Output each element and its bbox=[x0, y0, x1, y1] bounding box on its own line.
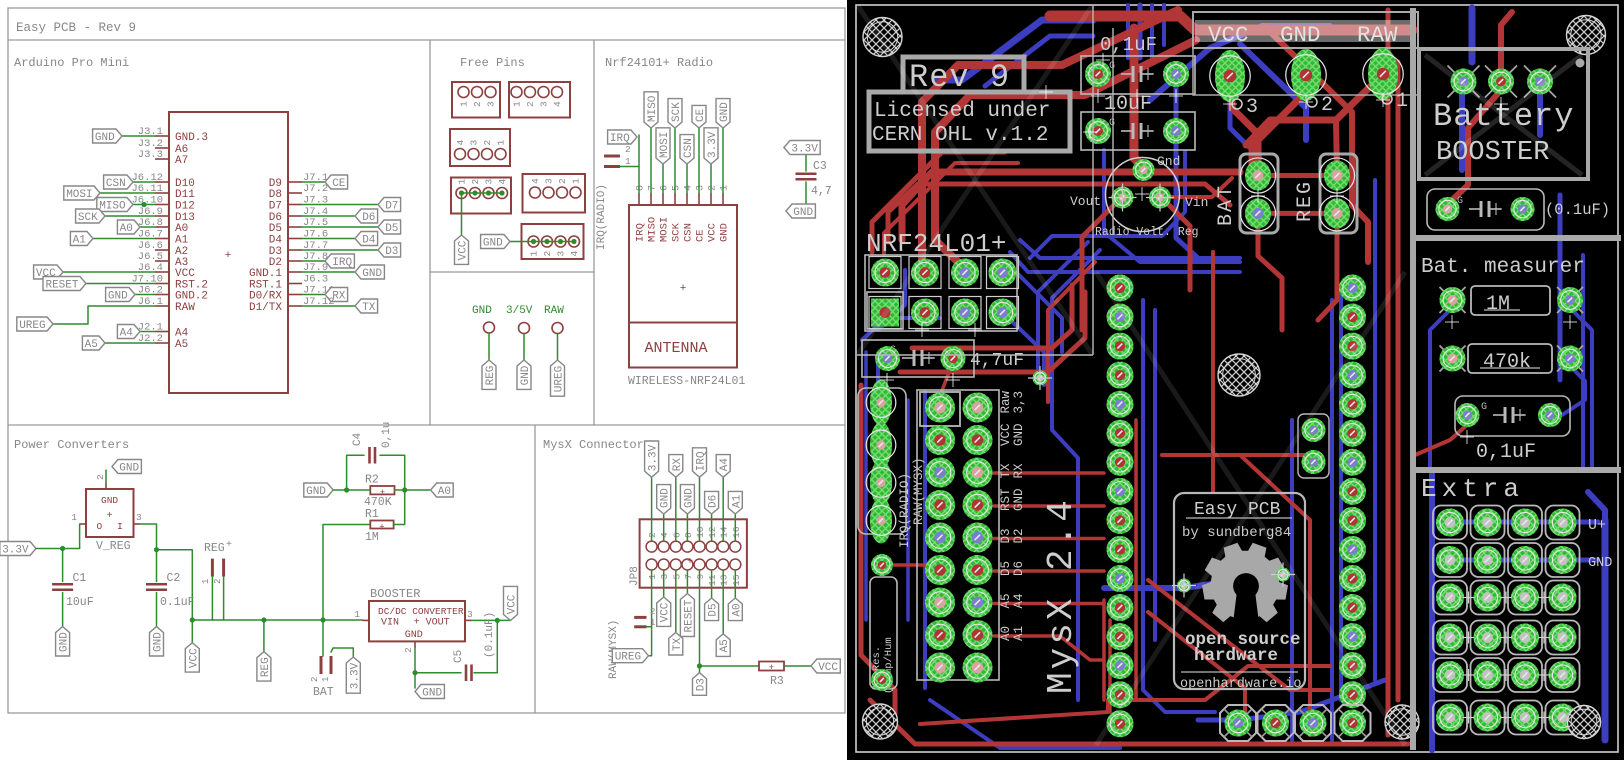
wire blue extra left bbox=[1429, 470, 1435, 750]
wire VCC-3.3V bbox=[710, 164, 712, 193]
svg-text:3.3V: 3.3V bbox=[2, 545, 29, 557]
svg-text:1M: 1M bbox=[365, 531, 379, 544]
pad J6.5 bbox=[1107, 391, 1134, 418]
pad J7.1 bbox=[1339, 275, 1366, 302]
pad logo.1 bbox=[1177, 579, 1191, 593]
wire blue battery top bbox=[1469, 8, 1476, 62]
pin J7.7 D3 bbox=[269, 240, 328, 258]
svg-text:GND: GND bbox=[108, 291, 128, 303]
svg-text:3,3: 3,3 bbox=[1012, 391, 1026, 414]
wire red diag logo 2 bbox=[1148, 612, 1245, 720]
silk extra pad 4.4 bbox=[1546, 621, 1580, 655]
pin J6.1 RAW bbox=[138, 296, 195, 314]
svg-text:BAT: BAT bbox=[1215, 184, 1238, 226]
wire red mid vertical bbox=[1134, 420, 1138, 700]
svg-text:C1: C1 bbox=[73, 572, 87, 585]
jumper JP7 IRQ(RADIO) bbox=[604, 144, 631, 167]
svg-text:4: 4 bbox=[530, 178, 541, 184]
svg-text:MysX 2.4: MysX 2.4 bbox=[1041, 497, 1082, 694]
wire REG pin1 bbox=[211, 577, 213, 621]
pad NRF.8 bbox=[989, 259, 1017, 287]
wire red left of col bbox=[1102, 600, 1106, 700]
wire red horizontal 1 bbox=[902, 172, 1240, 240]
mounting hole bottom-right overlay bbox=[1568, 706, 1601, 739]
svg-text:GND: GND bbox=[483, 238, 503, 250]
svg-text:16: 16 bbox=[731, 526, 742, 538]
svg-text:VCC: VCC bbox=[660, 602, 672, 622]
silk extra pad 1.5 bbox=[1433, 658, 1467, 692]
silk aux pads bbox=[1298, 414, 1329, 478]
wire blue left edge vertical bbox=[876, 358, 880, 520]
svg-text:1: 1 bbox=[1396, 90, 1408, 113]
silk bottom octagon 4 bbox=[1335, 705, 1371, 741]
wire blue cap to reg bbox=[1176, 145, 1198, 258]
silk box power header bbox=[1193, 12, 1418, 95]
svg-text:4,7: 4,7 bbox=[811, 185, 832, 198]
svg-text:2: 2 bbox=[310, 677, 320, 682]
wire red vcc down bbox=[1232, 76, 1258, 172]
pad C9.1 bbox=[1436, 197, 1460, 221]
svg-text:REG: REG bbox=[1294, 180, 1317, 222]
pad R1M.1 bbox=[1440, 287, 1466, 313]
pad C6.1 bbox=[1085, 118, 1111, 144]
pin J6.8 A0 bbox=[138, 217, 188, 235]
svg-text:A0: A0 bbox=[438, 486, 451, 498]
pad EXTRA.4.1 bbox=[1549, 509, 1577, 537]
wire TX bbox=[675, 570, 677, 632]
wire R1 to junction bbox=[394, 490, 405, 525]
pad bottom.1 bbox=[1225, 710, 1252, 737]
wire blue extra right bbox=[1602, 520, 1609, 740]
svg-text:IRQ: IRQ bbox=[696, 451, 708, 471]
svg-text:2: 2 bbox=[213, 579, 223, 584]
pad aux.1 bbox=[1302, 418, 1326, 442]
wire blue right of reg bbox=[1030, 152, 1185, 258]
pad BAT.2 bbox=[1240, 196, 1275, 231]
pad J7.8 bbox=[1339, 478, 1366, 505]
mounting hole bottom-right bbox=[1568, 706, 1601, 739]
svg-text:Easy PCB - Rev 9: Easy PCB - Rev 9 bbox=[16, 21, 136, 35]
svg-text:GND: GND bbox=[520, 365, 532, 385]
svg-text:UREG: UREG bbox=[19, 320, 45, 332]
wire red top band bbox=[1050, 16, 1412, 30]
label mysx row D3 D2 bbox=[999, 528, 1026, 543]
svg-text:GND: GND bbox=[59, 632, 71, 652]
wire net GND bbox=[122, 135, 155, 137]
pad EXTRA.4.4 bbox=[1549, 624, 1577, 652]
wire net SCK bbox=[105, 215, 155, 217]
wire red reg down bbox=[1318, 213, 1337, 320]
svg-text:3: 3 bbox=[484, 179, 495, 185]
svg-text:D6: D6 bbox=[362, 212, 375, 224]
wire MOSI bbox=[662, 164, 664, 193]
wire to C5 right bbox=[474, 620, 497, 672]
pin J7.8 D2 bbox=[269, 251, 328, 269]
svg-text:G: G bbox=[1481, 402, 1487, 413]
silk extra pad 4.1 bbox=[1546, 506, 1580, 540]
wire net GND bbox=[135, 294, 155, 296]
svg-text:3: 3 bbox=[486, 101, 497, 107]
pad J7.10 bbox=[1339, 536, 1366, 563]
pad EXTRA.3.3 bbox=[1511, 584, 1539, 612]
label A1 bbox=[70, 232, 93, 247]
svg-text:C4: C4 bbox=[352, 432, 364, 446]
pad EXTRA.4.3 bbox=[1549, 584, 1577, 612]
wire blue battery 2 bbox=[1537, 90, 1543, 135]
svg-text:D5: D5 bbox=[708, 603, 720, 616]
svg-text:VCC: VCC bbox=[507, 594, 519, 614]
svg-text:3.3V: 3.3V bbox=[791, 144, 818, 156]
svg-text:Radio Volt. Reg: Radio Volt. Reg bbox=[1095, 226, 1199, 239]
label RESET bbox=[680, 594, 695, 637]
pin J7.9 GND.1 bbox=[249, 262, 328, 280]
wire A5 bbox=[722, 570, 724, 634]
svg-text:GND: GND bbox=[405, 630, 423, 641]
radio pin 4 bbox=[684, 185, 695, 205]
label D4 bbox=[355, 232, 378, 247]
label mysx row VCC GND bbox=[999, 423, 1026, 446]
wire REG pin2 bbox=[223, 577, 225, 621]
svg-text:A5: A5 bbox=[175, 339, 188, 351]
svg-text:A0: A0 bbox=[120, 223, 133, 235]
wire red bat-reg link 2 bbox=[1258, 211, 1337, 216]
label REG bbox=[482, 360, 497, 389]
wire red gnd diagonal bbox=[1252, 92, 1306, 174]
svg-text:+: + bbox=[107, 511, 113, 522]
svg-text:O: O bbox=[96, 521, 102, 532]
svg-text:GND.3: GND.3 bbox=[175, 132, 208, 144]
svg-text:hardware: hardware bbox=[1194, 646, 1278, 666]
pad J6.15 bbox=[1107, 681, 1134, 708]
label A5 bbox=[716, 634, 731, 657]
svg-text:TX: TX bbox=[672, 637, 684, 651]
wire red diag logo 1 bbox=[1148, 580, 1330, 690]
svg-text:VIN: VIN bbox=[381, 618, 399, 629]
pad J7.6 bbox=[1339, 420, 1366, 447]
wire blue battery 1 bbox=[1459, 90, 1465, 170]
label D3 bbox=[693, 673, 708, 696]
label GND bbox=[786, 204, 815, 219]
pad EXTRA.4.2 bbox=[1549, 546, 1577, 574]
label VCC bbox=[811, 659, 840, 674]
svg-text:2: 2 bbox=[1321, 94, 1333, 117]
pin J7.5 D5 bbox=[269, 217, 328, 235]
svg-text:3: 3 bbox=[136, 512, 142, 523]
silk nrf pad squares bbox=[869, 257, 1019, 329]
logo open source hardware gear bbox=[1202, 543, 1288, 631]
pad RAWMYSX.4 bbox=[866, 498, 896, 544]
label UREG bbox=[612, 649, 648, 664]
wire net D5 bbox=[302, 226, 378, 228]
pad J7.3 bbox=[1339, 333, 1366, 360]
silk arduino outline left bbox=[1092, 5, 1094, 355]
wire blue right mid 2 bbox=[1330, 300, 1334, 740]
pad via raw bbox=[1033, 371, 1048, 386]
svg-text:WIRELESS-NRF24L01: WIRELESS-NRF24L01 bbox=[628, 375, 745, 388]
wire net D4 bbox=[302, 238, 355, 240]
svg-text:7: 7 bbox=[683, 574, 694, 580]
silk extra pad 2.4 bbox=[1471, 621, 1505, 655]
svg-text:U+: U+ bbox=[1588, 517, 1606, 534]
silk extra pad 2.3 bbox=[1471, 581, 1505, 615]
svg-text:D5: D5 bbox=[999, 561, 1013, 576]
wire 3.3V bbox=[651, 477, 653, 541]
radio pin 7 bbox=[648, 185, 659, 205]
label GND bbox=[680, 485, 695, 514]
svg-text:1M: 1M bbox=[1486, 293, 1510, 316]
label SCK bbox=[668, 99, 683, 128]
svg-text:2: 2 bbox=[525, 101, 536, 107]
wire GND to R2 bbox=[333, 489, 370, 491]
svg-text:GND: GND bbox=[472, 305, 492, 317]
capacitor C5 bbox=[453, 612, 496, 681]
pin J2.2 A5 bbox=[138, 333, 188, 351]
svg-text:A5: A5 bbox=[999, 593, 1013, 608]
pad BATT.1 bbox=[1451, 69, 1477, 95]
pad aux.2 bbox=[1302, 450, 1326, 474]
wire blue extra row2 bbox=[1438, 558, 1598, 563]
silk extra pad 3.4 bbox=[1508, 621, 1542, 655]
svg-text:8: 8 bbox=[683, 532, 694, 538]
wire red vin to bat bbox=[1171, 178, 1232, 197]
svg-text:Extra: Extra bbox=[1421, 474, 1524, 504]
svg-text:RAW: RAW bbox=[175, 302, 195, 314]
svg-text:+ VOUT: + VOUT bbox=[414, 618, 450, 629]
label CE bbox=[325, 175, 348, 190]
mounting hole center bbox=[1218, 354, 1260, 396]
label GND bbox=[304, 483, 333, 498]
pin J7.3 D7 bbox=[269, 195, 328, 213]
pad MYSX.L1 bbox=[925, 393, 955, 423]
pad reg Vin bbox=[1149, 187, 1171, 209]
svg-text:MysX Connector: MysX Connector bbox=[543, 438, 644, 452]
pad EXTRA.1.4 bbox=[1436, 624, 1464, 652]
svg-text:VCC: VCC bbox=[999, 423, 1013, 446]
wire red bat down bbox=[1258, 213, 1282, 330]
svg-text:RAW(MYSX): RAW(MYSX) bbox=[912, 457, 926, 525]
svg-text:REG: REG bbox=[260, 657, 272, 677]
svg-text:SCK: SCK bbox=[671, 102, 683, 122]
svg-text:470k: 470k bbox=[1483, 351, 1531, 374]
wire blue right mid 1 bbox=[1290, 420, 1294, 740]
pin J6.12 D10 bbox=[131, 172, 194, 190]
silk mysx header bbox=[917, 390, 999, 680]
pad MYSX.R3 bbox=[963, 458, 993, 488]
svg-text:D2: D2 bbox=[1012, 528, 1026, 543]
pad J6.3 bbox=[1107, 333, 1134, 360]
wire A0 bbox=[734, 570, 736, 598]
pad EXTRA.3.5 bbox=[1511, 661, 1539, 689]
pad BATT.2 bbox=[1488, 69, 1514, 95]
pad MYSX.R1 bbox=[963, 393, 993, 423]
small silk dot bbox=[1576, 59, 1585, 68]
svg-text:UREG: UREG bbox=[554, 366, 566, 392]
pad J6.16 bbox=[1107, 710, 1134, 737]
wire VCC bbox=[663, 570, 665, 597]
svg-text:1: 1 bbox=[529, 251, 540, 257]
wire IRQ bbox=[699, 477, 701, 541]
wire net IRQ bbox=[302, 260, 325, 262]
label SCK bbox=[76, 209, 105, 224]
svg-text:GND: GND bbox=[101, 495, 118, 506]
wire jumper pin1 bbox=[620, 166, 639, 168]
svg-text:D8: D8 bbox=[269, 189, 282, 201]
wire blue 1M right bbox=[1570, 308, 1592, 468]
svg-text:GND: GND bbox=[719, 223, 731, 242]
pad MYSX.R2 bbox=[963, 425, 993, 455]
svg-text:MISO: MISO bbox=[99, 201, 126, 213]
wire A4 bbox=[722, 477, 724, 541]
connector JP1 3-pin header bbox=[452, 82, 500, 118]
svg-text:D5: D5 bbox=[385, 223, 398, 235]
label IRQ bbox=[693, 448, 708, 477]
pin numbers 3 2 1 bbox=[1232, 90, 1408, 119]
svg-text:4,7uF: 4,7uF bbox=[970, 351, 1024, 371]
pad NRF.2 bbox=[871, 259, 899, 287]
wire D5 bbox=[711, 570, 713, 598]
wire to GND bbox=[523, 334, 525, 361]
svg-text:1: 1 bbox=[496, 140, 507, 146]
wire blue left edge vertical 2 bbox=[864, 352, 868, 620]
pin REG bbox=[484, 322, 495, 333]
IC V_REG voltage regulator bbox=[71, 474, 142, 537]
svg-text:5: 5 bbox=[672, 185, 683, 191]
wire to GND bbox=[414, 673, 416, 688]
label VCC bbox=[185, 643, 200, 672]
svg-text:3.3V: 3.3V bbox=[648, 444, 660, 471]
label D6 bbox=[355, 209, 378, 224]
label IRQ bbox=[608, 130, 637, 145]
svg-text:D0/RX: D0/RX bbox=[249, 290, 282, 302]
pad J7.4 bbox=[1339, 362, 1366, 389]
wire blue center vertical 3 bbox=[1162, 5, 1166, 45]
wire red right vertical 2 bbox=[1396, 62, 1401, 700]
svg-text:3/5V: 3/5V bbox=[506, 305, 533, 317]
wire blue right vertical 3 bbox=[1581, 255, 1585, 468]
connector JP8 MysX body bbox=[640, 519, 747, 587]
svg-text:1: 1 bbox=[625, 156, 631, 167]
pad D3res.1 bbox=[871, 554, 893, 576]
pad MYSX.L2 bbox=[925, 425, 955, 455]
wire pin9 to R3 bbox=[700, 570, 760, 666]
svg-text:MISO: MISO bbox=[647, 217, 659, 242]
jumper REG bbox=[201, 540, 232, 584]
pad MYSX.L7 bbox=[925, 588, 955, 618]
pad VCC bbox=[1210, 50, 1251, 102]
wire red bottom long bbox=[870, 700, 1408, 744]
pin J7.4 D6 bbox=[269, 206, 328, 224]
wire blue nrf 2 bbox=[862, 318, 940, 340]
wire red battery down bbox=[1452, 90, 1501, 200]
wire blue left of mysx 2 bbox=[906, 400, 910, 620]
pad bottom.4 bbox=[1339, 710, 1366, 737]
svg-text:2: 2 bbox=[557, 178, 568, 184]
wire red d3res link bbox=[893, 563, 938, 567]
mounting hole top-left bbox=[863, 18, 902, 57]
wire blue right vertical 2 bbox=[1558, 195, 1563, 380]
capacitor C4 bbox=[352, 422, 393, 464]
silk extra pad 4.3 bbox=[1546, 581, 1580, 615]
svg-text:0.1uF: 0.1uF bbox=[160, 596, 195, 609]
silk extra pad 2.2 bbox=[1471, 543, 1505, 577]
label D3 bbox=[378, 243, 401, 258]
svg-text:C5: C5 bbox=[453, 650, 465, 663]
label VCC bbox=[657, 597, 672, 626]
mounting hole bottom-mid bbox=[1385, 705, 1419, 739]
svg-text:CE: CE bbox=[695, 108, 707, 122]
svg-text:IRQ: IRQ bbox=[635, 223, 647, 242]
svg-text:0,1u: 0,1u bbox=[381, 422, 393, 448]
wire net UREG to RAW pin bbox=[53, 306, 155, 324]
pad EXTRA.2.4 bbox=[1474, 624, 1502, 652]
wire red battery top bbox=[1501, 12, 1512, 82]
silk divider measurer bottom bbox=[1416, 467, 1621, 473]
svg-text:D3: D3 bbox=[385, 246, 398, 258]
svg-text:C3: C3 bbox=[813, 160, 827, 173]
pad J6.13 bbox=[1107, 623, 1134, 650]
pad EXTRA.3.1 bbox=[1511, 509, 1539, 537]
silk extra pad 3.2 bbox=[1508, 543, 1542, 577]
pin J2.1 A4 bbox=[138, 322, 189, 340]
svg-text:SCK: SCK bbox=[671, 222, 683, 242]
svg-text:D6: D6 bbox=[1012, 561, 1026, 576]
pad J6.12 bbox=[1107, 594, 1134, 621]
silk box Rev 9 bbox=[903, 57, 1024, 96]
silk logo box Easy PCB bbox=[1174, 493, 1305, 689]
label mysx row D5 D6 bbox=[999, 561, 1026, 576]
svg-text:A5: A5 bbox=[85, 339, 98, 351]
wire red mid horizontal 2 bbox=[900, 292, 1085, 372]
svg-text:3: 3 bbox=[467, 609, 473, 620]
pad EXTRA.2.5 bbox=[1474, 661, 1502, 689]
wire red to reg pad bbox=[1336, 122, 1337, 172]
pin J7.11 D0/RX bbox=[249, 285, 335, 303]
label mysx row RST GND bbox=[999, 488, 1026, 511]
svg-text:C2: C2 bbox=[167, 572, 181, 585]
svg-text:D4: D4 bbox=[362, 235, 376, 247]
pad MYSX.R5 bbox=[963, 523, 993, 553]
svg-text:9: 9 bbox=[695, 574, 706, 580]
silk extra pad 1.6 bbox=[1433, 701, 1467, 735]
pad NRF.5 bbox=[951, 299, 979, 327]
svg-text:1: 1 bbox=[457, 179, 468, 185]
svg-text:A1: A1 bbox=[1012, 626, 1026, 641]
label 3.3V bbox=[346, 657, 361, 693]
wire CSN bbox=[686, 164, 688, 193]
svg-text:470K: 470K bbox=[364, 496, 392, 509]
svg-text:D1/TX: D1/TX bbox=[249, 302, 282, 314]
svg-text:MOSI: MOSI bbox=[659, 132, 671, 158]
pad C7.1 bbox=[1085, 61, 1111, 87]
regulator radio volt reg bbox=[1070, 154, 1208, 239]
svg-text:GND: GND bbox=[119, 463, 139, 475]
svg-text:UREG: UREG bbox=[615, 652, 641, 664]
wire to BAT jumper bbox=[322, 620, 324, 656]
label GND bbox=[106, 288, 135, 303]
pad BATT.3 bbox=[1527, 69, 1553, 95]
svg-text:GND: GND bbox=[719, 102, 731, 122]
label CSN bbox=[104, 175, 133, 190]
svg-text:Free Pins: Free Pins bbox=[460, 56, 525, 70]
pin J6.4 VCC bbox=[138, 262, 195, 280]
wire red bat-reg link 1 bbox=[1258, 173, 1337, 178]
wire blue center vertical 2 bbox=[1150, 5, 1154, 58]
wire net A5 bbox=[105, 342, 155, 344]
wire blue left of mysx bbox=[923, 392, 927, 688]
wire SCK bbox=[674, 128, 676, 193]
wire blue nrf right 2 bbox=[1002, 312, 1044, 385]
silk left connector bbox=[858, 388, 906, 534]
